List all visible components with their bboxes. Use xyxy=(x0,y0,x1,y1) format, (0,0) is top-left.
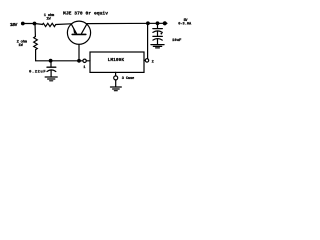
capacitor C2 10uF curved bottom plate xyxy=(153,31,162,33)
wire R1 to transistor emitter xyxy=(56,23,71,26)
label pin number 1 xyxy=(83,66,86,70)
svg-text:18V: 18V xyxy=(10,22,18,28)
svg-text:3 Case: 3 Case xyxy=(122,77,135,81)
svg-text:1W: 1W xyxy=(18,44,23,48)
resistor R2 2 ohm lead from junction A down xyxy=(34,24,36,37)
label C2 value: 10uF xyxy=(172,39,182,43)
polarity + mark of C2 xyxy=(161,33,163,35)
capacitor C3 lead to ground xyxy=(157,39,159,44)
capacitor C1 0.22uF curved bottom plate xyxy=(47,70,56,72)
capacitor C1 0.22uF lead xyxy=(50,61,52,67)
node D junction dot (output line joins rail) xyxy=(146,21,150,25)
ground symbol below C1 xyxy=(45,76,57,78)
pin 1 open terminal circle of U1 xyxy=(83,59,86,62)
pin 2 open terminal circle of U1 xyxy=(145,59,148,62)
wire collector to output rail xyxy=(87,22,167,24)
wire input terminal to junction A xyxy=(23,23,35,25)
transistor base wire down to node C xyxy=(78,44,80,61)
label C1 value: 0.22uF xyxy=(29,70,46,74)
wire IC bottom pin 3 xyxy=(115,72,117,76)
ground symbol below C3 xyxy=(151,44,164,46)
capacitor C1 lead to ground xyxy=(50,71,52,77)
wire IC box to pin2 terminal xyxy=(144,59,145,61)
ground symbol below pin 3 xyxy=(111,86,122,88)
node: input terminal dot xyxy=(21,22,25,26)
node: output terminal dot xyxy=(163,21,167,25)
label pin number 3 and Case xyxy=(122,77,135,81)
resistor R2 2 ohm (vertical zigzag) xyxy=(34,37,38,50)
capacitor C3 section top plate xyxy=(153,35,162,37)
wire pin2 up to output rail xyxy=(147,23,149,59)
label R1 value: 1 ohm 1W xyxy=(44,13,55,21)
op-amp / regulator U1 LM109K box xyxy=(90,52,144,72)
capacitor C2 lead between sections xyxy=(157,31,159,36)
svg-text:MJE 370 0r equiv: MJE 370 0r equiv xyxy=(63,11,108,17)
capacitor C1 0.22uF top plate xyxy=(47,66,56,68)
label 18V input voltage xyxy=(10,22,18,28)
svg-text:0.22uF: 0.22uF xyxy=(29,70,46,74)
wire R2 bottom down to lower rail corner xyxy=(36,50,51,61)
svg-text:0-3.0A: 0-3.0A xyxy=(178,23,192,27)
label output: 5V 0-3.0A xyxy=(178,19,192,27)
wire junction A to resistor R1 xyxy=(35,23,43,26)
label R2 value: 2 ohm 1W xyxy=(17,40,28,48)
capacitor C2 10uF lead from rail xyxy=(157,23,159,28)
wire pin1 circle to IC box xyxy=(86,60,90,62)
capacitor C3 curved bottom plate xyxy=(153,39,162,41)
node B junction dot (0.22uF cap tap) xyxy=(49,59,53,63)
transistor Q1 emitter line with arrow (PNP) xyxy=(71,24,76,34)
resistor R1 1 ohm (horizontal zigzag) xyxy=(42,23,56,26)
svg-text:2: 2 xyxy=(152,60,154,64)
label pin number 2 xyxy=(152,60,154,64)
wire pin3 to ground xyxy=(115,80,117,87)
svg-text:LM109K: LM109K xyxy=(108,58,125,63)
node C junction dot (base / pin1 node) xyxy=(77,59,81,63)
wire node C to pin1 terminal xyxy=(79,60,83,62)
node E junction dot (10uF cap tap on rail) xyxy=(156,21,160,25)
svg-text:1W: 1W xyxy=(46,18,51,22)
node A junction dot (top of 2-ohm resistor branch) xyxy=(33,22,37,26)
wire node B to base node xyxy=(51,60,79,62)
label Q1: MJE 370 or equiv xyxy=(63,11,108,17)
transistor Q1 MJE370 (PNP, circle) xyxy=(67,21,90,44)
transistor Q1 collector line xyxy=(82,24,87,34)
pin 3 open terminal circle of U1 (case) xyxy=(114,76,118,80)
label U1: LM109K xyxy=(108,58,125,63)
capacitor C2 10uF top plate xyxy=(153,28,162,30)
svg-text:1: 1 xyxy=(83,66,86,70)
svg-text:10uF: 10uF xyxy=(172,39,182,43)
transistor Q1 base bar xyxy=(72,33,86,35)
